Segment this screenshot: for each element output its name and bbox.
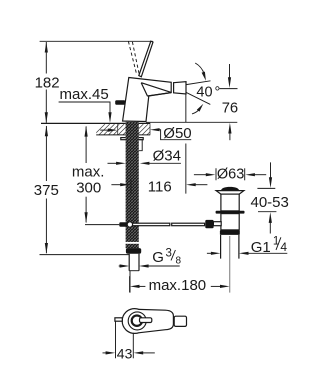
handle joint strip: [173, 82, 175, 92]
shank coupling nut: [126, 248, 141, 254]
svg-text:G: G: [152, 249, 164, 266]
dimension 43: [103, 322, 155, 359]
mounting washer under deck: [121, 138, 143, 140]
horizontal pop-up rod thin extension: [85, 224, 119, 226]
dimension 40-53: [257, 162, 276, 233]
pop-up rod (two segments): [132, 223, 170, 226]
mounting nut profile: [139, 140, 142, 151]
dimension max.180: [130, 276, 230, 292]
top view: faucet outer circle: [122, 309, 147, 334]
top view: spout stub: [174, 316, 186, 326]
svg-text:1: 1: [273, 235, 279, 247]
svg-text:40-53: 40-53: [251, 194, 289, 211]
svg-text:76: 76: [222, 101, 238, 117]
faucet body (front view): [123, 78, 172, 122]
svg-text:Ø34: Ø34: [153, 147, 181, 164]
extension line at G3/8 level: [40, 254, 130, 256]
dimension 76: [220, 64, 238, 140]
top view: body outline: [139, 309, 174, 332]
top view: inner circle: [128, 312, 146, 330]
extension line below G3/8 tube: [129, 271, 131, 293]
top view: bold cartridge circle: [132, 316, 142, 326]
top view: lever bar: [140, 318, 152, 323]
svg-text:8: 8: [176, 256, 182, 267]
svg-text:4: 4: [280, 240, 287, 254]
svg-text:300: 300: [76, 179, 101, 196]
rod knob black: [205, 220, 213, 228]
pop-up waste plug dome: [221, 187, 239, 191]
dimension diameter 34: [108, 162, 181, 165]
pop-up upper body cylinder: [221, 194, 239, 211]
top view: left stub: [115, 318, 122, 321]
svg-text:Ø50: Ø50: [163, 125, 191, 142]
svg-text:375: 375: [34, 182, 59, 199]
svg-text:max.45: max.45: [60, 86, 109, 103]
lever (dashed alternative position): [128, 41, 136, 74]
40 degree swivel rays: [186, 81, 210, 85]
svg-text:43: 43: [117, 346, 133, 362]
dimension 182 vertical line with arrows: [45, 42, 48, 123]
dimension 375 vertical line with arrows: [45, 125, 48, 253]
extension line from lever tip down: [185, 94, 187, 194]
spout outlet level extension line (76 bottom): [146, 121, 237, 123]
dimension diameter 50 with leader: [100, 128, 191, 140]
deck top line: [41, 122, 150, 124]
deck bottom line: [96, 134, 150, 136]
handle tip block: [174, 82, 186, 94]
svg-text:max.180: max.180: [149, 277, 207, 294]
svg-text:G1: G1: [251, 239, 271, 256]
svg-text:116: 116: [148, 179, 172, 196]
dimension G1 1/4: [207, 252, 287, 255]
label max.45 with leader arrow to deck: [59, 86, 112, 123]
extension line at lever top: [40, 40, 153, 42]
dimension G3/8: [119, 264, 180, 267]
lever (solid position): [139, 41, 153, 77]
svg-text:182: 182: [35, 74, 60, 91]
pop-up coupling band: [220, 230, 240, 235]
40 degree arc arrow bottom: [192, 109, 200, 114]
hidden base edges through deck: [117, 124, 119, 135]
pop-up escutcheon flange: [216, 211, 245, 214]
shank gap band: [125, 242, 140, 244]
dimension max.300 vertical line with arrows: [85, 126, 88, 223]
spout inner edge lines: [141, 83, 171, 96]
G3/8 connection tube: [129, 254, 139, 271]
pop-up tailpipe: [221, 235, 239, 259]
svg-text:3: 3: [166, 248, 172, 260]
40 degree arc arrow top: [195, 63, 204, 74]
deck hatched section: [93, 124, 163, 136]
rod pivot circle: [127, 222, 132, 227]
tailpipe centerline: [229, 236, 231, 293]
dimension 116: [111, 179, 207, 193]
dimension diameter 63: [194, 168, 266, 180]
pop-up waste flange rim: [216, 191, 244, 195]
pop-up lower body: [221, 214, 239, 230]
rod clamp at shank: [119, 222, 127, 227]
pop-up lift rod knob on body: [115, 100, 125, 105]
rod stem into pop-up: [213, 222, 221, 226]
svg-text:Ø63: Ø63: [217, 167, 244, 183]
threaded shank: [126, 122, 139, 248]
svg-text:max.: max.: [72, 163, 105, 180]
svg-text:40°: 40°: [196, 85, 220, 101]
